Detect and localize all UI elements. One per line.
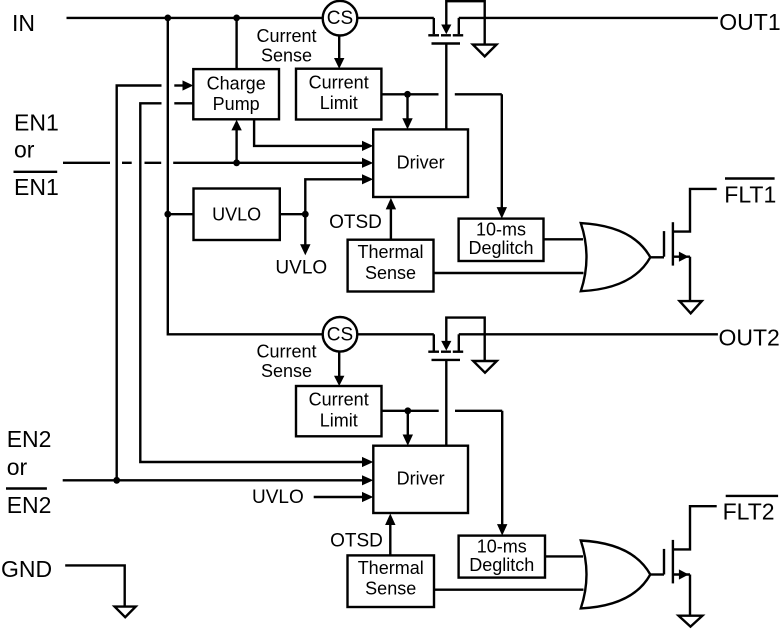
thermal sense 2 box: [348, 555, 435, 607]
svg-text:Current: Current: [256, 341, 316, 361]
wire Q1 gate to driver 1: [445, 44, 447, 130]
wire GND: [65, 565, 125, 606]
Q2 source with body arrow: [673, 256, 690, 258]
wire thermal sense 1 to driver 1: [390, 209, 392, 240]
wire UVLO signal down: [304, 214, 306, 245]
svg-text:EN1: EN1: [14, 109, 59, 135]
Q3 body loop to ground: [446, 318, 484, 361]
wire IN to FET1 source: [357, 17, 434, 19]
wire IN horizontal: [67, 17, 323, 19]
svg-text:Current: Current: [309, 72, 369, 92]
svg-text:CS: CS: [327, 8, 353, 29]
Q2 gate bar: [663, 231, 665, 257]
svg-text:Charge: Charge: [207, 74, 266, 94]
svg-text:EN2: EN2: [7, 426, 52, 452]
port label OUT2: [719, 325, 780, 351]
wire thermal sense 1 to OR gate 1: [434, 272, 584, 274]
port label IN: [12, 10, 35, 36]
port label FLT2: [723, 498, 775, 524]
svg-text:Current: Current: [256, 26, 316, 46]
svg-text:CS: CS: [327, 324, 353, 345]
node IN/charge-pump junction: [233, 15, 240, 22]
Q1 source bend: [433, 18, 435, 34]
node IN/branch1 junction: [164, 15, 171, 22]
label OTSD (channel 1): [329, 212, 382, 233]
wire UVLO to driver 1: [305, 179, 362, 214]
svg-text:Limit: Limit: [320, 410, 358, 430]
port label EN2 stack: [7, 426, 52, 518]
svg-text:UVLO: UVLO: [212, 204, 261, 224]
ground at GND pin: [115, 607, 136, 618]
label OTSD (channel 2): [330, 531, 383, 552]
wire Q3 gate to driver 2: [445, 360, 447, 446]
svg-text:IN: IN: [12, 10, 35, 36]
Q4 source to ground: [689, 575, 691, 616]
svg-text:Driver: Driver: [397, 152, 445, 172]
EN2 overline: [6, 487, 47, 489]
current sense CS2 circle: [323, 317, 358, 352]
Q4 source with body arrow: [673, 573, 690, 575]
thermal sense 1 box: [348, 240, 434, 292]
svg-text:or: or: [7, 454, 28, 480]
node UVLO output junction: [302, 211, 309, 218]
transistor Q2 fault MOSFET 1: [664, 189, 717, 301]
wire deglitch 2 to OR gate 2: [545, 555, 583, 557]
node EN1/charge-pump junction: [233, 159, 240, 166]
svg-text:Sense: Sense: [261, 361, 312, 381]
Q2 source to ground: [689, 257, 691, 301]
svg-text:Driver: Driver: [397, 469, 445, 489]
node current-limit-2/driver junction: [404, 407, 411, 414]
wire charge pump output to driver 1: [254, 119, 362, 146]
svg-text:UVLO: UVLO: [252, 487, 304, 508]
wire to deglitch 2: [501, 411, 503, 525]
Q3 source bend: [433, 334, 435, 350]
wire current limit 1 output: [381, 93, 438, 95]
wire thermal sense 2 to driver 2: [389, 525, 391, 556]
wire thermal sense 2 to OR gate 2: [434, 589, 584, 591]
driver 1 box: [373, 129, 468, 197]
wire EN2: [63, 479, 362, 481]
svg-text:Sense: Sense: [365, 579, 416, 599]
svg-text:GND: GND: [1, 556, 52, 582]
svg-text:Current: Current: [309, 390, 369, 410]
wire EN2 bus to charge pump input: [117, 86, 162, 481]
transistor Q1 power MOSFET: [428, 1, 484, 44]
ground at Q4 source: [679, 616, 703, 627]
OR gate 2: [581, 541, 651, 609]
svg-text:Deglitch: Deglitch: [468, 238, 533, 258]
Q4 drain to FLT2: [673, 506, 717, 549]
wire OUT2: [459, 333, 718, 335]
label Current Sense (channel 1): [256, 26, 316, 66]
charge pump U1 box: [193, 69, 279, 119]
Q1 channel segments: [428, 34, 439, 36]
Q1 body loop to ground: [446, 1, 484, 44]
Q3 drain bend: [458, 334, 460, 350]
Q1 drain bend: [458, 18, 460, 34]
label Current Sense (channel 2): [256, 341, 316, 381]
svg-text:Limit: Limit: [320, 93, 358, 113]
deglitch 1 box: [459, 219, 544, 261]
svg-text:Deglitch: Deglitch: [469, 555, 534, 575]
Q4 gate bar: [663, 549, 665, 575]
wire charge pump port 2 to driver 2: [174, 102, 193, 104]
svg-text:or: or: [14, 137, 35, 163]
svg-text:10-ms: 10-ms: [476, 220, 526, 240]
Q1 gate bar: [432, 42, 461, 44]
Q2 drain to FLT1: [673, 189, 717, 232]
svg-text:FLT1: FLT1: [724, 182, 776, 208]
driver 2 box: [373, 446, 468, 513]
wire to driver 1 top: [406, 94, 408, 118]
svg-text:Sense: Sense: [261, 45, 312, 65]
Q3 gate bar: [432, 359, 461, 361]
svg-text:UVLO: UVLO: [275, 258, 327, 279]
node current-limit/driver junction: [404, 91, 411, 98]
wire current limit 2 output: [382, 410, 439, 412]
svg-text:OTSD: OTSD: [329, 212, 382, 233]
wire IN bus to UVLO: [168, 213, 194, 215]
wire IN bus vertical to channel 2: [168, 18, 323, 334]
FLT1 overline: [725, 177, 775, 179]
wire deglitch 1 to OR gate 1: [544, 238, 584, 240]
current limit 2 box: [296, 386, 382, 436]
svg-text:OTSD: OTSD: [330, 531, 383, 552]
node EN2/charge-pump-bus junction: [113, 477, 120, 484]
wire CS2 to current limit 2: [338, 352, 340, 376]
svg-text:Thermal: Thermal: [357, 242, 423, 262]
ground at Q1 body: [473, 45, 497, 57]
wire EN1 to charge pump bottom: [235, 130, 237, 163]
wire to deglitch 1: [501, 94, 503, 207]
port label GND: [1, 556, 52, 582]
wire UVLO to driver 2: [314, 496, 362, 498]
FLT2 overline: [726, 495, 778, 497]
svg-text:EN2: EN2: [7, 492, 52, 518]
svg-text:OUT1: OUT1: [719, 9, 780, 35]
UVLO box: [194, 189, 280, 241]
ground at Q2 source: [680, 301, 702, 313]
svg-text:Pump: Pump: [213, 94, 260, 114]
deglitch 2 box: [459, 536, 545, 578]
wire EN1 (dashed then solid): [63, 162, 110, 164]
wire UVLO output: [280, 213, 306, 215]
current sense CS1 circle: [323, 1, 358, 36]
svg-text:OUT2: OUT2: [719, 325, 780, 351]
wire IN to charge pump top: [235, 18, 237, 69]
transistor Q4 fault MOSFET 2: [664, 506, 717, 616]
port label FLT1: [724, 182, 776, 208]
Q4 channel bar: [672, 540, 674, 584]
node IN-bus/UVLO junction: [164, 211, 171, 218]
current limit 1 box: [296, 69, 381, 120]
wire to driver 2 top: [407, 411, 409, 435]
Q2 channel bar: [672, 222, 674, 265]
wire OR gate 1 output: [650, 256, 664, 258]
ground at Q3 body: [473, 361, 497, 373]
svg-text:EN1: EN1: [14, 174, 59, 200]
Q3 channel segments: [428, 351, 439, 353]
port label EN1 stack: [14, 109, 59, 199]
svg-text:10-ms: 10-ms: [477, 537, 527, 557]
wire CS2 to FET2 source: [357, 333, 434, 335]
port label OUT1: [719, 9, 780, 35]
wire CS1 to current limit 1: [338, 36, 340, 59]
svg-text:FLT2: FLT2: [723, 498, 775, 524]
label UVLO output: [275, 258, 327, 279]
wire OR gate 2 output: [650, 573, 664, 575]
svg-text:Sense: Sense: [365, 263, 416, 283]
svg-text:Thermal: Thermal: [358, 558, 424, 578]
transistor Q3 power MOSFET 2: [428, 318, 484, 361]
OR gate 1: [581, 223, 651, 291]
wire OUT1: [459, 17, 718, 19]
label UVLO (channel 2 input): [252, 487, 304, 508]
EN1 overline: [14, 171, 58, 173]
